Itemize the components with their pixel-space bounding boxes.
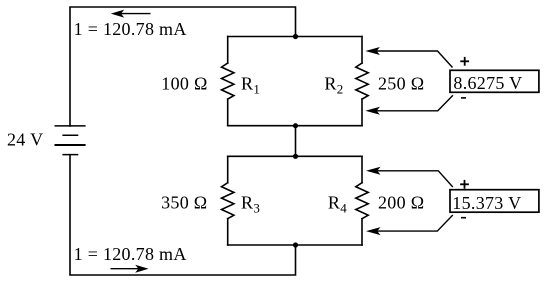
current arrow top (pointing left): [111, 10, 151, 18]
battery B1 24V: [55, 126, 86, 155]
resistor R2: [356, 63, 368, 99]
plus sign V2: [460, 180, 469, 189]
resistor R1: [222, 63, 234, 99]
svg-text:24 V: 24 V: [7, 129, 43, 149]
svg-text:8.6275 V: 8.6275 V: [453, 73, 522, 93]
node A junction dot: [293, 34, 298, 39]
probe arrow V2 plus (to top of R4): [366, 167, 453, 187]
node D junction dot: [293, 242, 298, 247]
wire upper loop top edge: [228, 36, 362, 38]
svg-text:1 = 120.78 mA: 1 = 120.78 mA: [74, 244, 187, 264]
voltmeter box V2: [450, 190, 539, 213]
minus sign V2: [461, 217, 466, 219]
wire bottom from battery to node D: [70, 155, 296, 275]
wire lower loop bottom edge: [228, 244, 362, 246]
wire upper loop right edge stubs: [361, 37, 363, 64]
voltmeter box V1: [450, 70, 539, 92]
wire lower loop top edge: [228, 155, 362, 157]
probe arrow V2 minus (to bottom of R4): [366, 215, 453, 235]
probe arrow V1 plus (to top of R2): [365, 47, 452, 68]
wire node B to node C (middle link): [295, 126, 297, 157]
wire upper loop left edge stubs: [227, 37, 229, 64]
svg-text:250 Ω: 250 Ω: [378, 73, 424, 93]
resistor R3: [222, 183, 234, 219]
svg-text:100 Ω: 100 Ω: [161, 73, 207, 93]
svg-text:350 Ω: 350 Ω: [161, 193, 207, 213]
plus sign V1: [460, 57, 469, 66]
current arrow bottom (pointing right): [111, 265, 149, 273]
wire lower loop right edge stubs: [361, 156, 363, 182]
node C junction dot: [293, 154, 298, 159]
svg-text:200 Ω: 200 Ω: [378, 193, 424, 213]
svg-text:15.373 V: 15.373 V: [452, 193, 521, 213]
minus sign V1: [461, 97, 466, 99]
svg-text:1 = 120.78 mA: 1 = 120.78 mA: [74, 19, 187, 39]
resistor R4: [356, 183, 368, 219]
wire lower loop left edge stubs: [227, 156, 229, 182]
wire top from battery to node A: [70, 7, 296, 126]
wire upper loop bottom edge: [228, 125, 362, 127]
probe arrow V1 minus (to bottom of R2): [365, 95, 453, 115]
node B junction dot: [293, 123, 298, 128]
